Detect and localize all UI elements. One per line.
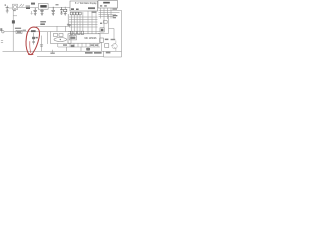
module U3 [98, 1, 118, 9]
wire pins bottom [70, 43, 98, 47]
node [53, 7, 54, 8]
capacitor C2 [51, 7, 55, 11]
label [13, 10, 16, 11]
IR receiver U5 [13, 4, 18, 9]
bus bottom2 [37, 51, 122, 57]
label [40, 23, 45, 25]
resistor R7 [113, 17, 116, 18]
regulator U2 7805 [38, 4, 48, 10]
diode D6 [105, 44, 109, 48]
label [26, 5, 30, 6]
crystal XTAL2 [86, 47, 90, 51]
relay RL1 [100, 28, 104, 32]
label [106, 52, 111, 54]
ground [64, 12, 67, 16]
wire [42, 32, 51, 44]
label [111, 39, 116, 40]
label [85, 52, 93, 54]
wire [52, 50, 54, 53]
crystal XTAL1 highlighted [31, 30, 38, 44]
capacitor C4 [40, 36, 43, 52]
label [40, 21, 46, 23]
label 230V [0, 28, 2, 31]
label C1 [31, 3, 35, 5]
resistor R8 [103, 21, 107, 24]
annotation red ellipse [26, 27, 40, 55]
IC U1 [68, 34, 100, 43]
label [23, 30, 26, 31]
wire [88, 31, 96, 34]
label [15, 28, 21, 29]
label [95, 44, 98, 46]
label [94, 52, 102, 54]
wire [4, 31, 50, 33]
wire [49, 6, 71, 8]
terminal AC2 [1, 41, 3, 43]
wire [98, 29, 114, 41]
ground [34, 12, 37, 16]
bus bottom [3, 50, 122, 52]
wire [9, 7, 13, 9]
node [60, 39, 61, 40]
capacitor C6 [5, 4, 9, 10]
ground [41, 12, 44, 16]
capacitor C3 [64, 7, 66, 9]
transistor Q1 [111, 40, 117, 51]
resistor R5 [113, 15, 118, 16]
ground [67, 14, 70, 25]
wire [13, 15, 17, 17]
label [112, 8, 117, 10]
label [50, 53, 54, 54]
wire [108, 15, 110, 34]
ground [52, 12, 55, 16]
diode D1 [26, 7, 30, 9]
sensor module U4 [51, 32, 72, 44]
label [92, 11, 97, 13]
wire [36, 25, 70, 27]
wire bus right [121, 10, 123, 51]
resistor network RN1 [70, 12, 81, 15]
vertical wire left [12, 10, 14, 52]
diode D2 [12, 20, 15, 23]
wire column matrix [71, 12, 83, 31]
wire row matrix [69, 17, 98, 27]
capacitor C7 [60, 7, 63, 11]
svg-text:MC 145026: MC 145026 [85, 38, 98, 40]
terminal AC1 [2, 31, 4, 33]
label [100, 23, 102, 24]
svg-text:5 x 7 Dot Matrix Display: 5 x 7 Dot Matrix Display [75, 2, 97, 5]
wire [57, 26, 66, 31]
capacitor C5 [71, 45, 75, 47]
resistor R1 [16, 30, 22, 33]
capacitor C8 [40, 9, 44, 11]
label [91, 44, 94, 46]
arrow [19, 4, 24, 7]
label [63, 44, 67, 46]
wire [18, 7, 39, 9]
label C2 [56, 4, 59, 5]
label L1 [68, 24, 71, 26]
wire [58, 44, 100, 48]
wire [99, 10, 122, 16]
wire [67, 47, 82, 51]
display DIS1 5x7 dot matrix [70, 1, 98, 11]
ground [60, 11, 63, 14]
connector pins [70, 31, 83, 34]
wire [68, 30, 100, 32]
resistor R6 [100, 38, 109, 42]
node [65, 7, 66, 8]
wire pins [101, 8, 112, 28]
wire [88, 11, 96, 31]
ground [31, 11, 33, 14]
capacitor C1 [33, 8, 37, 12]
wire [101, 42, 103, 51]
ground [6, 11, 9, 13]
